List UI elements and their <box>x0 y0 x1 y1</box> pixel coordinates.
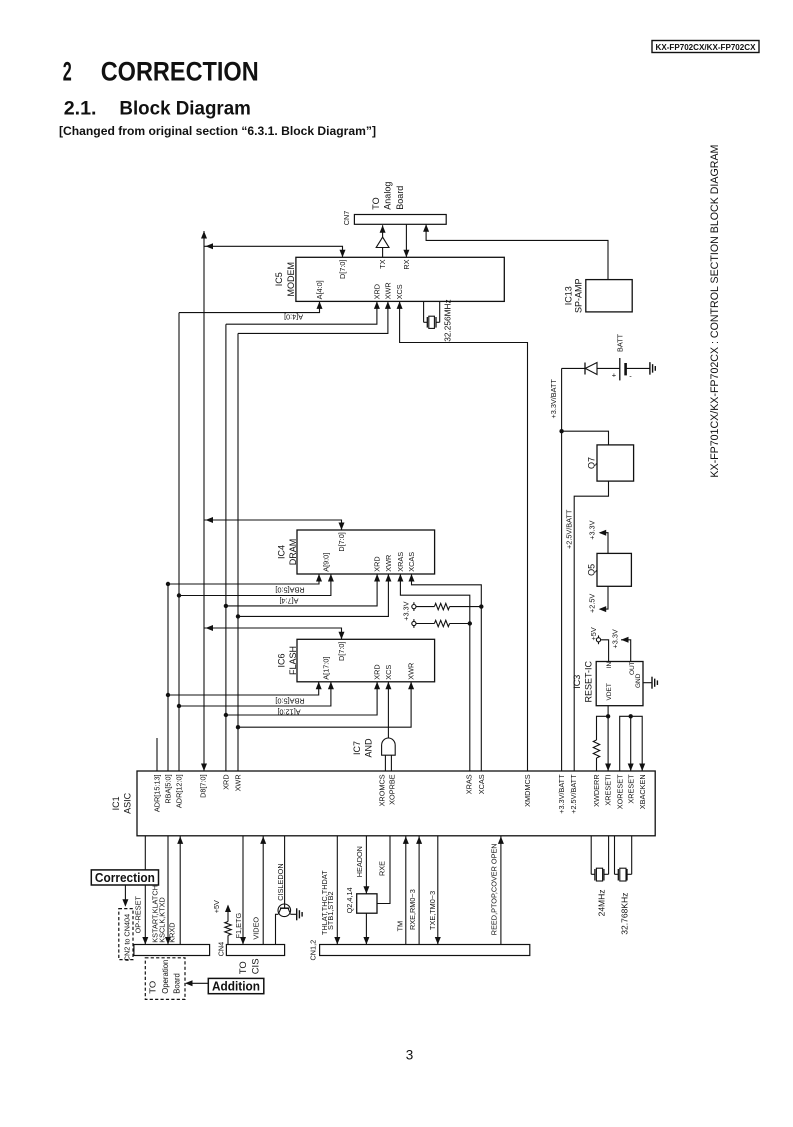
svg-text:24MHz: 24MHz <box>597 889 607 916</box>
svg-text:Q2,4,14: Q2,4,14 <box>345 887 354 913</box>
svg-text:D[7:0]: D[7:0] <box>337 532 346 551</box>
wire VIDEO <box>262 836 264 945</box>
junction XRESET branch <box>629 714 633 718</box>
wire Q5 +3.3V in <box>600 533 608 554</box>
svg-text:+3.3V: +3.3V <box>402 601 411 620</box>
svg-text:RX: RX <box>402 259 411 269</box>
connector CN7 <box>354 215 446 225</box>
svg-text:AND: AND <box>364 738 374 758</box>
svg-text:Operation: Operation <box>160 959 170 993</box>
svg-text:KRXD: KRXD <box>168 922 177 942</box>
svg-text:XRAS: XRAS <box>396 552 405 572</box>
IC3 RESET-IC box <box>596 662 643 706</box>
wire XRD to MODEM <box>226 301 377 324</box>
junction XCAS / pull-up <box>479 604 483 608</box>
ground (IC3) <box>651 677 653 689</box>
svg-text:XROMCS: XROMCS <box>377 774 386 806</box>
svg-text:D[7:0]: D[7:0] <box>338 260 347 279</box>
svg-text:Q7: Q7 <box>586 457 596 469</box>
callout Addition box <box>208 978 263 993</box>
wire transistor emitter to CN4 <box>276 914 279 944</box>
arrowhead D8 bus into ASIC <box>201 764 207 772</box>
+5V terminal (IC3) <box>596 638 600 642</box>
svg-text:XBACKEN: XBACKEN <box>638 774 647 809</box>
svg-text:Analog: Analog <box>383 182 393 210</box>
svg-text:RBA[5:0]: RBA[5:0] <box>275 696 304 705</box>
+5V pull-up (CN4) <box>227 906 229 922</box>
svg-text:CN1,2: CN1,2 <box>309 940 318 961</box>
svg-text:XCS: XCS <box>395 284 404 299</box>
svg-text:+5V: +5V <box>212 900 221 913</box>
wire XWR to MODEM <box>238 301 388 333</box>
wire XROMCS ASIC to AND <box>384 755 386 771</box>
svg-text:CIS: CIS <box>251 958 262 974</box>
wire RBA[5:0] to FLASH <box>168 682 319 695</box>
svg-text:IN: IN <box>606 661 613 668</box>
svg-text:TXE,TM0~3: TXE,TM0~3 <box>428 891 437 930</box>
svg-text:XWR: XWR <box>383 282 392 299</box>
svg-text:TO: TO <box>238 961 249 974</box>
svg-text:XCAS: XCAS <box>477 774 486 794</box>
svg-text:+5V: +5V <box>589 627 598 640</box>
svg-text:TO: TO <box>371 197 381 209</box>
svg-text:DRAM: DRAM <box>288 539 298 566</box>
gate IC7 AND <box>382 738 396 755</box>
svg-text:XWR: XWR <box>407 663 416 680</box>
svg-text:SP-AMP: SP-AMP <box>574 279 584 314</box>
svg-text:XRD: XRD <box>222 774 231 789</box>
svg-text:XCS: XCS <box>384 665 393 680</box>
svg-text:[Changed from original section: [Changed from original section “6.3.1. B… <box>59 124 376 138</box>
svg-text:A[4:0]: A[4:0] <box>315 280 324 299</box>
wire CISLEDON to transistor <box>284 836 286 905</box>
wire D8[7:0] bus vertical <box>203 231 205 771</box>
transistor Q5 box <box>597 553 631 586</box>
wire D8 branch to DRAM D[7:0] <box>204 520 342 530</box>
wire AND output to FLASH XCS <box>387 682 389 738</box>
svg-text:3: 3 <box>406 1047 414 1062</box>
wire Addition arrow <box>186 982 208 984</box>
transistor Q7 box <box>597 445 634 481</box>
wire TX triangle to MODEM <box>382 248 384 258</box>
wire transistor to ground <box>290 913 296 915</box>
transistor Q (CIS LED drive) <box>278 904 291 917</box>
callout Correction box <box>91 870 158 885</box>
wire ADR[15:13] stub <box>156 738 158 771</box>
resistor F1 pull-up <box>225 922 231 936</box>
wire XORESET to XBACKEN rail <box>620 716 643 771</box>
svg-text:CN4: CN4 <box>216 942 225 957</box>
svg-text:TX: TX <box>378 259 387 268</box>
svg-text:A[9:0]: A[9:0] <box>321 553 330 572</box>
svg-text:A[12:0]: A[12:0] <box>277 707 300 716</box>
wire VDET / XRESETI <box>607 706 609 771</box>
ground (transistor) <box>296 908 298 920</box>
svg-text:2.1.: 2.1. <box>64 98 97 120</box>
junction XRD / DRAM <box>224 604 228 608</box>
svg-text:KX-FP701CX/KX-FP702CX : CONTRO: KX-FP701CX/KX-FP702CX : CONTROL SECTION … <box>709 145 721 478</box>
svg-text:CISLEDON: CISLEDON <box>276 863 285 900</box>
wire +5V to IC3 IN <box>601 640 609 662</box>
svg-text:XCAS: XCAS <box>407 552 416 572</box>
svg-text:XORESET: XORESET <box>615 774 624 809</box>
junction RBA bus / DRAM <box>166 582 170 586</box>
wire REED,PTOP,COVER OPEN <box>500 836 502 945</box>
svg-text:STB1,STB2: STB1,STB2 <box>326 891 335 930</box>
wire battery to ground <box>626 367 650 369</box>
wire CN7 to IC13 SP-AMP <box>426 224 608 279</box>
connector CN4 bar <box>226 945 284 956</box>
IC6 FLASH box <box>297 639 435 682</box>
IC4 DRAM box <box>297 530 435 574</box>
junction XRD / FLASH <box>224 713 228 717</box>
wire to diode <box>562 367 585 369</box>
wire XRAS DRAM to ASIC <box>400 574 469 771</box>
IC1 ASIC box <box>137 771 655 836</box>
wire IC3 GND <box>643 682 652 684</box>
svg-text:VDET: VDET <box>606 683 613 700</box>
svg-text:IC5: IC5 <box>274 272 284 286</box>
svg-text:IC6: IC6 <box>277 653 287 667</box>
wire Q2,4,14 to CN1,2 <box>365 913 367 944</box>
svg-text:IC13: IC13 <box>564 286 574 305</box>
wire XMDMCS MODEM XCS to ASIC <box>400 301 528 771</box>
crystal 24MHz <box>590 836 592 875</box>
svg-text:KX-FP702CX/KX-FP702CX: KX-FP702CX/KX-FP702CX <box>656 42 756 52</box>
svg-text:OP-RESET: OP-RESET <box>134 896 143 934</box>
wire XWR bus vertical <box>237 333 239 771</box>
wire TM <box>405 836 407 945</box>
wire RX CN7 to MODEM <box>405 224 407 257</box>
wire RXE <box>377 836 390 904</box>
IC13 SP-AMP box <box>586 280 632 312</box>
wire A[4:0] to MODEM <box>179 301 320 312</box>
svg-text:Q5: Q5 <box>586 564 596 576</box>
wire +3.3V/BATT to Q7 <box>562 431 609 445</box>
svg-text:RBA[5:0]: RBA[5:0] <box>164 774 173 803</box>
svg-text:ADR[12:0]: ADR[12:0] <box>175 774 184 808</box>
wire KRXD <box>179 836 181 945</box>
svg-text:+2.5V/BATT: +2.5V/BATT <box>565 509 574 549</box>
wire XWR to DRAM <box>238 574 388 616</box>
svg-text:RBA[5:0]: RBA[5:0] <box>275 585 304 594</box>
svg-text:HEADON: HEADON <box>355 846 364 877</box>
svg-text:XRAS: XRAS <box>464 774 473 794</box>
svg-text:F1,ETG: F1,ETG <box>234 913 243 939</box>
junction RBA bus / FLASH <box>166 693 170 697</box>
svg-text:+3.3V: +3.3V <box>587 520 596 539</box>
header model box <box>652 41 759 53</box>
wire XRD bus vertical <box>225 324 227 771</box>
svg-text:IC1: IC1 <box>111 796 121 810</box>
svg-text:+3.3V: +3.3V <box>611 629 620 648</box>
svg-text:+: + <box>612 371 617 380</box>
arrowhead D8 bus top <box>201 231 207 239</box>
buffer triangle TX <box>376 237 389 247</box>
wire TXE,TM0~3 <box>437 836 439 945</box>
svg-text:XMDMCS: XMDMCS <box>523 774 532 807</box>
svg-text:IC4: IC4 <box>277 545 287 559</box>
svg-text:XWR: XWR <box>234 774 243 791</box>
wire TX to CN7 <box>382 225 384 237</box>
wire Q5 +2.5V out <box>600 586 608 609</box>
svg-text:2: 2 <box>63 56 72 86</box>
svg-text:ADR[15:13]: ADR[15:13] <box>153 774 162 812</box>
wire D8 branch to FLASH D[7:0] <box>204 628 342 639</box>
svg-text:RXE,RM0~3: RXE,RM0~3 <box>408 889 417 930</box>
wire diode to battery <box>597 367 620 369</box>
dashed box TO Operation Board <box>145 958 185 1000</box>
junction XRAS / pull-up <box>468 621 472 625</box>
svg-text:XRESET: XRESET <box>626 774 635 804</box>
svg-text:RESET-IC: RESET-IC <box>583 661 593 703</box>
wire RBA[5:0] to DRAM <box>168 574 319 584</box>
op-amp U? no: IC5 MODEM box <box>296 257 504 301</box>
wire XRESET branch <box>630 716 632 771</box>
svg-text:+2.5V/BATT: +2.5V/BATT <box>569 774 578 814</box>
svg-text:ASIC: ASIC <box>123 792 133 814</box>
svg-text:XWR: XWR <box>384 555 393 572</box>
crystal 32.768KHz <box>614 836 616 875</box>
crystal 32.256MHz <box>423 301 425 322</box>
diode D (BATT) <box>585 363 597 375</box>
svg-text:REED,PTOP,COVER OPEN: REED,PTOP,COVER OPEN <box>490 843 499 935</box>
svg-text:TO: TO <box>147 980 157 994</box>
svg-text:Addition: Addition <box>212 980 260 994</box>
wire THLAT,THC,THDAT STB1,STB2 <box>336 836 338 945</box>
svg-text:MODEM: MODEM <box>286 262 296 297</box>
svg-text:FLASH: FLASH <box>288 646 298 675</box>
wire +3.3V/BATT rail <box>561 368 563 771</box>
junction XWR / FLASH <box>236 725 240 729</box>
wire ADR[12:0] bus vertical <box>178 313 180 771</box>
junction ADR bus / DRAM <box>177 593 181 597</box>
svg-text:IC3: IC3 <box>572 675 582 689</box>
wire XCAS DRAM to ASIC <box>412 574 482 771</box>
resistor pull-up XCAS +3.3V <box>412 605 416 609</box>
svg-text:+3.3V/BATT: +3.3V/BATT <box>557 774 566 814</box>
svg-text:VIDEO: VIDEO <box>252 917 261 940</box>
svg-text:XRD: XRD <box>372 284 381 299</box>
svg-text:+3.3V/BATT: +3.3V/BATT <box>549 379 558 419</box>
svg-text:GND: GND <box>635 673 642 688</box>
wire F1,ETG <box>242 836 244 945</box>
svg-text:XRESETI: XRESETI <box>604 774 613 805</box>
junction XWR / DRAM <box>236 614 240 618</box>
connector CN2/CN404 bar <box>134 945 210 956</box>
junction ADR bus / FLASH <box>177 704 181 708</box>
wire XRD to DRAM <box>226 574 377 606</box>
wire Q7 to +2.5V/BATT rail <box>574 481 608 771</box>
wire A[12:0] to FLASH <box>179 682 331 706</box>
dashed box CN2 to CN404 <box>119 909 133 960</box>
wire XWR to FLASH <box>238 682 411 727</box>
junction VDET node <box>606 714 610 718</box>
svg-text:A[4:0]: A[4:0] <box>284 312 303 321</box>
svg-text:RXE: RXE <box>377 861 386 876</box>
connector CN1,2 bar <box>320 945 530 956</box>
svg-text:CORRECTION: CORRECTION <box>101 56 259 86</box>
svg-text:D[7:0]: D[7:0] <box>337 642 346 661</box>
wire D8 branch to MODEM D[7:0] <box>204 246 343 257</box>
svg-text:KSCLK,KTXD: KSCLK,KTXD <box>157 897 166 942</box>
svg-text:Block Diagram: Block Diagram <box>119 98 251 120</box>
svg-text:OUT: OUT <box>629 661 636 675</box>
junction +3.3V/BATT / Q7 <box>559 429 563 433</box>
wire VDET node to XWDERR resistor <box>597 716 609 740</box>
wire RXE,RM0~3 <box>418 836 420 945</box>
resistor XWDERR <box>593 740 599 758</box>
wire XRD to FLASH <box>226 682 377 715</box>
resistor pull-up XRAS +3.3V <box>412 621 416 625</box>
wire XOPRBE ASIC to AND <box>390 755 392 771</box>
svg-text:XRD: XRD <box>373 556 382 571</box>
svg-text:XRD: XRD <box>373 664 382 679</box>
svg-text:32.768KHz: 32.768KHz <box>620 893 630 935</box>
ground (battery) <box>649 362 651 375</box>
wire Correction arrow <box>124 885 126 906</box>
svg-text:IC7: IC7 <box>352 741 362 755</box>
svg-text:CN2 to CN404: CN2 to CN404 <box>123 914 132 961</box>
svg-text:+2.5V: +2.5V <box>588 594 597 613</box>
svg-text:Correction: Correction <box>95 871 155 885</box>
svg-text:BATT: BATT <box>616 333 625 352</box>
svg-text:Board: Board <box>395 186 405 210</box>
svg-text:CN7: CN7 <box>342 211 351 226</box>
battery BATT <box>619 358 621 380</box>
wire KSTART,KLATCH / KSCLK,KTXD <box>167 836 169 945</box>
svg-text:XOPRBE: XOPRBE <box>387 774 396 805</box>
svg-text:D8[7:0]: D8[7:0] <box>198 774 207 798</box>
wire HEADON to Q2,4,14 <box>365 836 367 894</box>
svg-text:A[7:4]: A[7:4] <box>279 597 298 606</box>
wire RBA[5:0] bus vertical <box>167 584 169 771</box>
driver Q2,4,14 box <box>357 894 377 913</box>
wire OP-RESET <box>144 836 146 945</box>
svg-text:32.256MHz: 32.256MHz <box>442 299 452 341</box>
svg-text:A[17:0]: A[17:0] <box>321 657 330 680</box>
svg-text:TM: TM <box>395 921 404 932</box>
svg-text:Board: Board <box>171 973 181 994</box>
svg-text:XWDERR: XWDERR <box>592 774 601 806</box>
wire IC3 OUT to +3.3V <box>621 640 631 662</box>
wire A[7:4] to DRAM <box>179 574 331 596</box>
